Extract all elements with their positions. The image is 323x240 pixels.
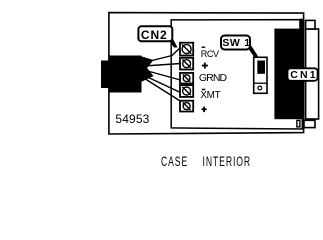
CN1 label box: [288, 68, 318, 81]
terminal T3: [180, 73, 193, 84]
switch SW1 component: [254, 57, 267, 93]
CN1 flange (outside case): [306, 29, 319, 119]
wire to T1: [144, 49, 179, 63]
CN1 bottom tab: [304, 120, 315, 127]
CN1 top tab: [306, 20, 315, 29]
CN2 label text: [137, 28, 171, 42]
terminal T5: [180, 101, 193, 112]
caption CASE INTERIOR: [161, 153, 251, 169]
label RCV: [201, 49, 219, 59]
SW1 label text: [221, 37, 252, 49]
terminal T4: [180, 85, 193, 97]
connector CN1 black body: [274, 29, 299, 120]
label XMT: [200, 90, 220, 101]
label GRND: [199, 72, 226, 84]
board (inner PCB): [171, 20, 302, 129]
CN1 lower bar stub: [302, 119, 304, 129]
cable prongs: [141, 56, 154, 82]
SW1 callout wedge: [246, 43, 259, 58]
wire to T3: [144, 70, 181, 80]
part number 54953: [115, 112, 149, 126]
RCV overbar (minus): [202, 46, 206, 48]
XMT overbar (minus): [202, 89, 206, 91]
CN1 bottom foot: [297, 120, 300, 127]
CN1 inner mounting bar: [299, 19, 303, 119]
terminal T1: [180, 43, 193, 56]
CN2 callout wedge: [168, 38, 178, 48]
label plus RCV: [202, 63, 208, 69]
wire to T5: [143, 78, 181, 102]
wire to T4: [142, 75, 181, 93]
terminal T2: [180, 58, 193, 70]
CN2 label box: [138, 26, 172, 41]
cable entry block (outside case): [101, 61, 110, 89]
CN1 label text: [289, 69, 319, 81]
SW1 label box: [221, 36, 250, 50]
cable block (inside case): [109, 56, 142, 93]
case outline: [109, 13, 304, 134]
label plus XMT: [202, 107, 207, 113]
wire to T2: [144, 64, 181, 67]
